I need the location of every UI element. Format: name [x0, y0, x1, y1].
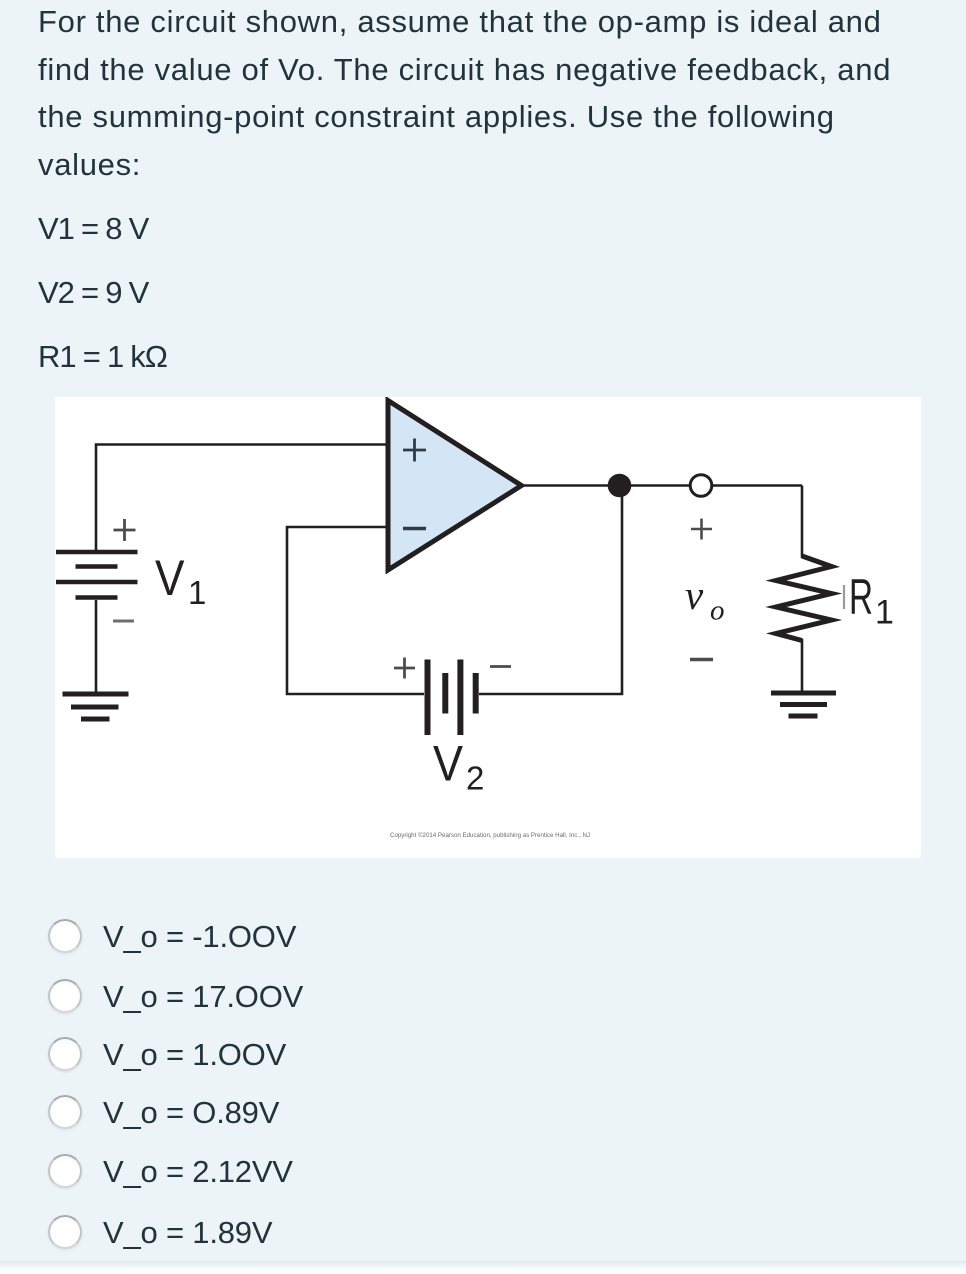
- svg-text:v: v: [685, 572, 704, 618]
- V2 minus sign: [490, 665, 511, 668]
- svg-text:1: 1: [188, 574, 206, 611]
- battery V1 plates: [56, 552, 138, 598]
- op-amp + input sign: [403, 439, 426, 462]
- wire R1 bottom to ground: [801, 639, 804, 693]
- svg-text:V: V: [433, 736, 464, 792]
- R1 faint tick: [843, 585, 845, 609]
- ground under R1: [771, 693, 836, 716]
- output open circle terminal: [690, 475, 712, 497]
- svg-text:R: R: [849, 569, 873, 625]
- battery V2 plates: [428, 660, 476, 736]
- svg-text:o: o: [710, 594, 725, 626]
- vo plus sign: [691, 519, 712, 540]
- V1 minus sign: [113, 620, 134, 623]
- V1 plus sign: [114, 519, 136, 541]
- svg-text:2: 2: [466, 760, 484, 797]
- resistor R1 zigzag: [776, 556, 832, 641]
- wire top from V1 to op-amp +input: [96, 445, 388, 552]
- svg-text:1: 1: [875, 594, 894, 632]
- svg-text:V: V: [155, 550, 185, 606]
- op-amp U1 triangle: [388, 401, 522, 571]
- wire output: [518, 484, 802, 487]
- ground under V1: [63, 694, 129, 719]
- wire V1 bottom to ground: [95, 600, 98, 693]
- output node dot: [608, 474, 632, 498]
- wire output corner down to R1: [801, 486, 804, 559]
- op-amp - input sign: [403, 527, 426, 530]
- wire V2 right to output node: [479, 487, 622, 694]
- wire feedback from -input to V2 left: [287, 527, 424, 694]
- V2 plus sign: [394, 658, 415, 679]
- vo minus sign: [690, 658, 713, 661]
- svg-text:Copyright ©2014 Pearson Educat: Copyright ©2014 Pearson Education, publi…: [390, 832, 590, 839]
